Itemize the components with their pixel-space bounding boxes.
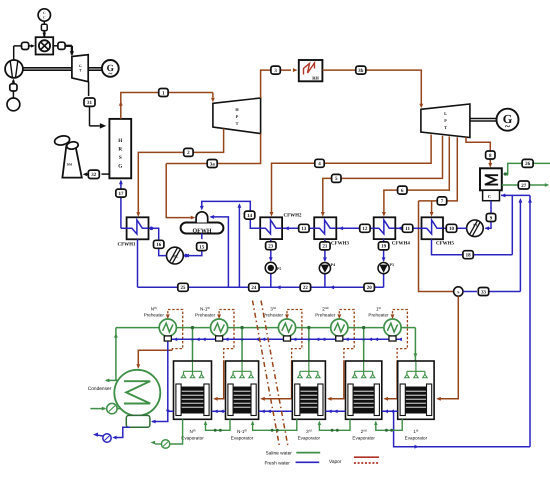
wire 2 HPT-CFWH1 [138, 129, 223, 215]
feedwater heater CFWH3 [314, 217, 336, 239]
compressor AC [5, 60, 23, 78]
evaporator 2 [226, 361, 259, 419]
svg-text:~: ~ [505, 121, 511, 132]
brine evaporator 5 to 4 [376, 419, 402, 430]
svg-text:20: 20 [367, 285, 373, 291]
node 3 [271, 66, 280, 74]
svg-text:Preheater: Preheater [195, 313, 216, 318]
distillate double arrow 3 [315, 338, 319, 342]
node 4 [315, 159, 324, 167]
svg-text:S: S [457, 290, 459, 294]
wire drain to OFWH right [211, 217, 229, 287]
wire saline branch to evaporator 2 [241, 328, 243, 368]
fuel supply CC [38, 9, 50, 21]
wire 7 LPT-CFWH5 and MED [419, 137, 458, 201]
wire saline feed to 1st evaporator [414, 328, 416, 364]
brine evaporator 3 to 2 [253, 419, 297, 430]
node 7 [437, 197, 446, 205]
wire 27 cooling water out [502, 184, 546, 186]
svg-text:P5: P5 [277, 266, 281, 271]
evaporator 3 [292, 361, 325, 419]
node 18 [463, 251, 473, 259]
svg-text:CFWH5: CFWH5 [436, 241, 455, 247]
wire 3 HPT-RH [261, 70, 291, 98]
svg-text:Evaporator: Evaporator [298, 436, 321, 441]
wire 26 cooling water in [504, 163, 550, 174]
break line right [261, 301, 288, 447]
brine evaporator 4 to 3 [319, 419, 350, 430]
node 11 [402, 224, 412, 232]
wire C-bottom manifold [501, 194, 530, 196]
svg-text:19: 19 [381, 244, 387, 250]
svg-text:Preheater: Preheater [315, 313, 336, 318]
wire CFWH4 drain [383, 239, 385, 242]
condenser hotwell C [483, 190, 500, 200]
svg-text:3a: 3a [210, 161, 216, 167]
node 33 [478, 288, 488, 296]
preheater 2 circle [211, 319, 228, 336]
svg-text:L: L [444, 111, 447, 116]
vapor Nth preheater to condenser [138, 350, 172, 367]
node 32 [88, 170, 99, 178]
wire air inlet [12, 91, 14, 98]
shaft GT-generator [88, 67, 102, 69]
svg-text:23: 23 [268, 244, 274, 250]
node 9 [486, 214, 495, 222]
wire 9 condensate [490, 201, 492, 225]
svg-text:P: P [236, 114, 239, 119]
svg-text:P: P [444, 118, 447, 123]
reheater RH [299, 60, 323, 81]
distillate double arrow 1 [195, 338, 199, 342]
wire 33 S-condenser [463, 291, 477, 293]
pump P3 [378, 263, 389, 274]
evaporator 1 [174, 361, 212, 419]
wire CFWH3-CFWH2 [308, 227, 314, 229]
svg-text:Saline water: Saline water [266, 451, 293, 457]
node 3b [356, 66, 366, 74]
stack chimney [62, 146, 81, 178]
HRSG [109, 119, 131, 178]
svg-text:14: 14 [247, 213, 253, 219]
svg-text:CFWH2: CFWH2 [284, 212, 303, 218]
generator G2 [497, 109, 519, 131]
preheater 4 circle [331, 319, 348, 336]
svg-text:P1: P1 [473, 223, 477, 228]
distillate arrow at preheater 4 [345, 338, 349, 342]
svg-text:27: 27 [521, 183, 527, 189]
svg-text:21: 21 [322, 244, 328, 250]
svg-text:Evaporator: Evaporator [352, 436, 375, 441]
svg-text:10: 10 [449, 226, 455, 232]
vapor preheater 4 to evaporator bundle [328, 361, 344, 399]
svg-text:CFWH1: CFWH1 [117, 241, 136, 247]
gas turbine GT [72, 55, 88, 82]
feedwater heater CFWH4 [374, 217, 396, 239]
node 28 air inlet box [10, 84, 17, 91]
generator G1 [102, 60, 119, 77]
svg-text:31: 31 [87, 100, 93, 106]
wire CFWH5 drain 18 [432, 239, 513, 255]
svg-text:Preheater: Preheater [263, 313, 284, 318]
node 31 [84, 98, 95, 106]
distillate arrow at preheater 2 [224, 338, 228, 342]
svg-text:Evaporator: Evaporator [181, 436, 204, 441]
preheater 5 circle [384, 319, 401, 336]
wire seawater intake [90, 408, 105, 410]
distillate double arrow 2 [255, 338, 259, 342]
wire CFWH2 drain [270, 239, 272, 242]
brine evaporator 2 to 1 [206, 419, 231, 430]
node F fuel box [41, 24, 47, 30]
deaerator OFWH [181, 223, 224, 234]
vapor loop preheater 1 [168, 310, 183, 351]
svg-text:RH: RH [312, 75, 319, 80]
svg-text:26: 26 [525, 161, 531, 167]
wire seawater reject [106, 379, 118, 381]
svg-text:Vapor: Vapor [329, 459, 342, 465]
feedwater heater CFWH2 [260, 217, 282, 239]
svg-text:24: 24 [251, 285, 257, 291]
node 17 [116, 189, 126, 197]
wire drain main line [138, 286, 384, 288]
condenser C shell [480, 168, 502, 190]
vapor loop preheater 2 [219, 310, 234, 362]
node 26 [522, 159, 533, 167]
LP turbine LPT [421, 104, 470, 138]
wire distillate preheater line [164, 338, 399, 340]
wire 5 LPT-CFWH3 [323, 136, 443, 215]
node 8 [486, 151, 495, 159]
node 29 compressor outlet [22, 42, 29, 49]
svg-text:S: S [119, 155, 122, 161]
wire feedwater P1-CFWH5 [455, 227, 466, 229]
svg-text:Evaporator: Evaporator [405, 436, 428, 441]
wire 4 LPT-CFWH2 [272, 135, 432, 215]
node 16 [154, 240, 164, 248]
svg-text:16: 16 [156, 242, 162, 248]
preheater 1 circle [159, 319, 176, 336]
wire 17 CFWH1-HRSG [121, 227, 127, 229]
wire saline branch to evaporator 1 [192, 328, 194, 368]
node 15 [197, 243, 207, 251]
pump P2 [167, 247, 184, 264]
wire 31 to HRSG [89, 106, 91, 126]
svg-text:Evaporator: Evaporator [231, 436, 254, 441]
wire saline riser from condenser [115, 328, 117, 381]
svg-text:P3: P3 [389, 262, 393, 267]
evaporator 5 [398, 361, 434, 419]
break line left [253, 301, 280, 447]
wire saline main line [116, 327, 159, 329]
vapor preheater 5 to evaporator bundle [385, 361, 397, 399]
wire 8 LPT-condenser [466, 137, 490, 165]
svg-text:33: 33 [481, 289, 487, 295]
svg-text:T: T [236, 121, 239, 126]
MED condenser shell [114, 370, 160, 416]
node 24 [249, 283, 259, 291]
svg-text:P2: P2 [173, 254, 177, 259]
node 3a [207, 160, 217, 168]
svg-text:G: G [118, 164, 122, 170]
wire combustor-GT [53, 45, 58, 47]
wire saline branch to evaporator 4 [363, 328, 365, 368]
pump P1 [467, 220, 484, 237]
svg-text:P4: P4 [331, 262, 335, 267]
node 30 combustor outlet [58, 42, 65, 49]
distillate between evaporators 3 [325, 410, 345, 412]
svg-text:C: C [488, 194, 491, 199]
svg-text:32: 32 [91, 172, 97, 178]
wire fuel box to combustor [43, 31, 45, 37]
wire drain riser 239 [238, 205, 240, 288]
node 14 [244, 211, 254, 219]
node 10 [446, 224, 456, 232]
svg-text:25: 25 [181, 285, 187, 291]
svg-text:12: 12 [362, 226, 368, 232]
distillate arrow at preheater 5 [398, 338, 402, 342]
wire CFWH5-CFWH4 [408, 227, 421, 229]
air inlet circle [7, 98, 20, 111]
wire 1 HRSG-HPT [121, 93, 213, 119]
shaft LPT-generator [470, 118, 497, 120]
svg-text:Preheater: Preheater [368, 313, 389, 318]
wire fuel-combustor [43, 21, 45, 24]
wire GT exhaust [88, 82, 90, 97]
node 25 [178, 283, 188, 291]
node 6 [398, 186, 407, 194]
svg-text:Fresh water: Fresh water [265, 460, 291, 466]
svg-text:T: T [444, 125, 447, 130]
distillate from evaporator N [168, 410, 174, 412]
wire saline branch to evaporator 3 [308, 328, 310, 368]
wire 6 LPT-CFWH4 [384, 136, 449, 214]
svg-text:17: 17 [119, 191, 125, 197]
wire 32 to stack [86, 173, 88, 175]
svg-text:DM: DM [67, 162, 72, 166]
svg-text:CFWH3: CFWH3 [331, 241, 350, 247]
node 27 [518, 181, 529, 189]
wire S to 1st evaporator [438, 296, 459, 399]
wire fresh water return [394, 411, 530, 446]
wire CFWH4-CFWH3 [369, 227, 374, 229]
feedwater heater CFWH5 [422, 217, 444, 239]
svg-text:Condenser: Condenser [88, 386, 112, 392]
wire CFWH2-14-OFWH [250, 219, 260, 228]
svg-text:CFWH4: CFWH4 [392, 241, 411, 247]
wire product water out [116, 427, 130, 437]
vapor loop preheater 4 [339, 310, 354, 362]
wire 3a HPT-OFWH [166, 134, 260, 164]
pump P5 [265, 262, 276, 273]
vapor preheater 3 to evaporator bundle [262, 361, 292, 399]
wire 15 OFWH outlet [201, 234, 203, 240]
wire 3b RH-LPT [322, 70, 421, 106]
svg-text:13: 13 [301, 226, 307, 232]
svg-text:18: 18 [466, 253, 472, 259]
combustor CB [36, 37, 54, 54]
wire compressor-combustor [29, 45, 34, 47]
wire HRSG to stack [102, 173, 110, 175]
svg-text:11: 11 [405, 226, 410, 232]
node 23 [266, 242, 276, 250]
svg-text:22: 22 [303, 285, 309, 291]
svg-text:G: G [79, 64, 82, 68]
distillate between evaporators 2 [259, 410, 293, 412]
shaft compressor-GT [23, 67, 72, 69]
distillate double arrow 4 [368, 338, 372, 342]
wire CFWH3 drain [324, 239, 326, 242]
svg-text:15: 15 [199, 244, 205, 250]
distillate arrow at preheater 1 [173, 338, 177, 342]
vapor loop preheater 5 [393, 310, 408, 362]
preheater 3 circle [278, 319, 295, 336]
feedwater heater CFWH1 [127, 217, 149, 239]
wire 16 P2-CFWH1 [159, 248, 167, 255]
node 13 [299, 224, 309, 232]
product water box [126, 415, 150, 427]
node 1 [159, 89, 168, 97]
node 22 [300, 283, 310, 291]
distillate between evaporators 1 [212, 410, 226, 412]
svg-text:3b: 3b [358, 68, 364, 74]
node 21 [320, 242, 330, 250]
node 12 [360, 224, 370, 232]
brine pump [161, 440, 169, 448]
brine blowdown from evaporator N [171, 419, 183, 444]
distillate between evaporators 4 [382, 410, 398, 412]
splitter node S [454, 287, 463, 296]
HP turbine HPT [213, 98, 261, 134]
pump P4 [319, 263, 330, 274]
wire CFWH1 drain [137, 239, 139, 287]
svg-text:Preheater: Preheater [144, 313, 165, 318]
vapor loop preheater 3 [287, 310, 302, 362]
svg-text:~: ~ [108, 69, 112, 78]
svg-text:H: H [118, 138, 122, 144]
distillate arrow at preheater 3 [292, 338, 296, 342]
evaporator 4 [346, 361, 382, 419]
wire distillate to product box [152, 341, 168, 422]
node 19 [378, 242, 388, 250]
vapor preheater 2 to evaporator bundle [215, 361, 224, 399]
node 5 [332, 174, 341, 182]
svg-text:R: R [118, 146, 122, 152]
node 2 [184, 148, 193, 156]
node 20 [364, 283, 374, 291]
